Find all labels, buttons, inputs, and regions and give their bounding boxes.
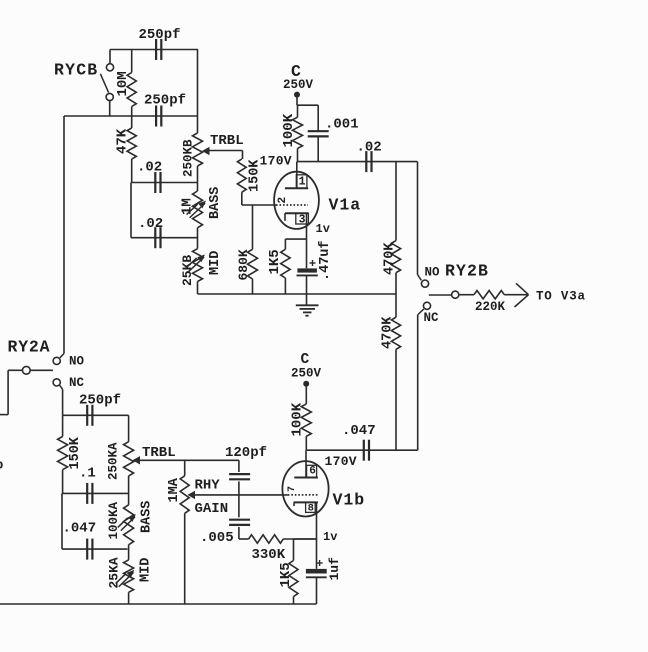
svg-text:.047: .047 — [63, 521, 97, 537]
svg-text:.001: .001 — [325, 117, 359, 133]
svg-text:220K: 220K — [475, 300, 506, 314]
svg-text:680K: 680K — [236, 249, 251, 280]
svg-text:GAIN: GAIN — [195, 501, 229, 517]
svg-text:250pf: 250pf — [144, 93, 186, 109]
svg-text:25KB: 25KB — [180, 255, 195, 286]
svg-text:7: 7 — [287, 486, 298, 492]
svg-text:BASS: BASS — [208, 187, 223, 219]
svg-text:.47uf: .47uf — [318, 240, 333, 281]
svg-text:8: 8 — [308, 503, 314, 515]
svg-text:1v: 1v — [316, 222, 330, 236]
svg-text:.1: .1 — [79, 466, 96, 482]
svg-text:RYCB: RYCB — [54, 61, 98, 80]
svg-text:MID: MID — [139, 558, 154, 582]
svg-text:250KA: 250KA — [107, 442, 121, 480]
svg-text:25KA: 25KA — [107, 557, 122, 588]
svg-text:330K: 330K — [252, 547, 286, 563]
svg-text:RHY: RHY — [195, 478, 221, 494]
svg-text:TRBL: TRBL — [210, 133, 244, 149]
svg-text:.02: .02 — [137, 160, 162, 176]
svg-text:NC: NC — [424, 311, 440, 325]
svg-text:1uf: 1uf — [327, 557, 342, 581]
svg-text:120pf: 120pf — [225, 445, 267, 461]
svg-text:150K: 150K — [68, 436, 83, 469]
svg-text:1M: 1M — [180, 198, 196, 215]
svg-text:1K5: 1K5 — [278, 562, 294, 587]
svg-text:1: 1 — [299, 176, 306, 189]
svg-text:b: b — [0, 458, 4, 473]
svg-text:100KA: 100KA — [107, 501, 121, 539]
svg-text:BASS: BASS — [140, 501, 155, 533]
svg-text:NO: NO — [425, 266, 441, 280]
svg-text:1K5: 1K5 — [267, 249, 283, 274]
svg-text:100K: 100K — [281, 113, 297, 147]
svg-text:250V: 250V — [283, 78, 314, 92]
svg-text:470K: 470K — [383, 242, 398, 275]
svg-text:170V: 170V — [325, 454, 357, 469]
svg-text:6: 6 — [309, 466, 316, 478]
svg-text:100K: 100K — [290, 402, 306, 436]
svg-text:250V: 250V — [291, 367, 322, 381]
svg-text:.02: .02 — [138, 216, 163, 232]
svg-text:V1a: V1a — [329, 196, 362, 215]
svg-text:TO V3a: TO V3a — [536, 290, 586, 304]
svg-text:1MA: 1MA — [167, 477, 182, 502]
svg-text:10M: 10M — [115, 71, 131, 96]
svg-text:47K: 47K — [115, 128, 131, 154]
svg-text:MID: MID — [208, 251, 223, 275]
svg-text:RY2B: RY2B — [445, 262, 489, 281]
svg-text:170V: 170V — [260, 154, 292, 169]
svg-text:470K: 470K — [381, 316, 396, 349]
svg-text:.005: .005 — [200, 530, 234, 546]
svg-text:NC: NC — [69, 376, 85, 390]
svg-text:250pf: 250pf — [79, 393, 121, 409]
svg-text:3: 3 — [299, 214, 306, 227]
svg-text:NO: NO — [69, 355, 85, 369]
svg-text:1v: 1v — [323, 530, 337, 544]
svg-text:RY2A: RY2A — [8, 338, 51, 357]
svg-text:250KB: 250KB — [182, 139, 196, 177]
svg-text:2: 2 — [277, 197, 289, 204]
svg-text:.02: .02 — [357, 140, 382, 156]
svg-text:TRBL: TRBL — [142, 445, 176, 461]
svg-text:V1b: V1b — [333, 491, 366, 510]
svg-text:250pf: 250pf — [139, 27, 181, 43]
svg-text:.047: .047 — [342, 423, 376, 439]
